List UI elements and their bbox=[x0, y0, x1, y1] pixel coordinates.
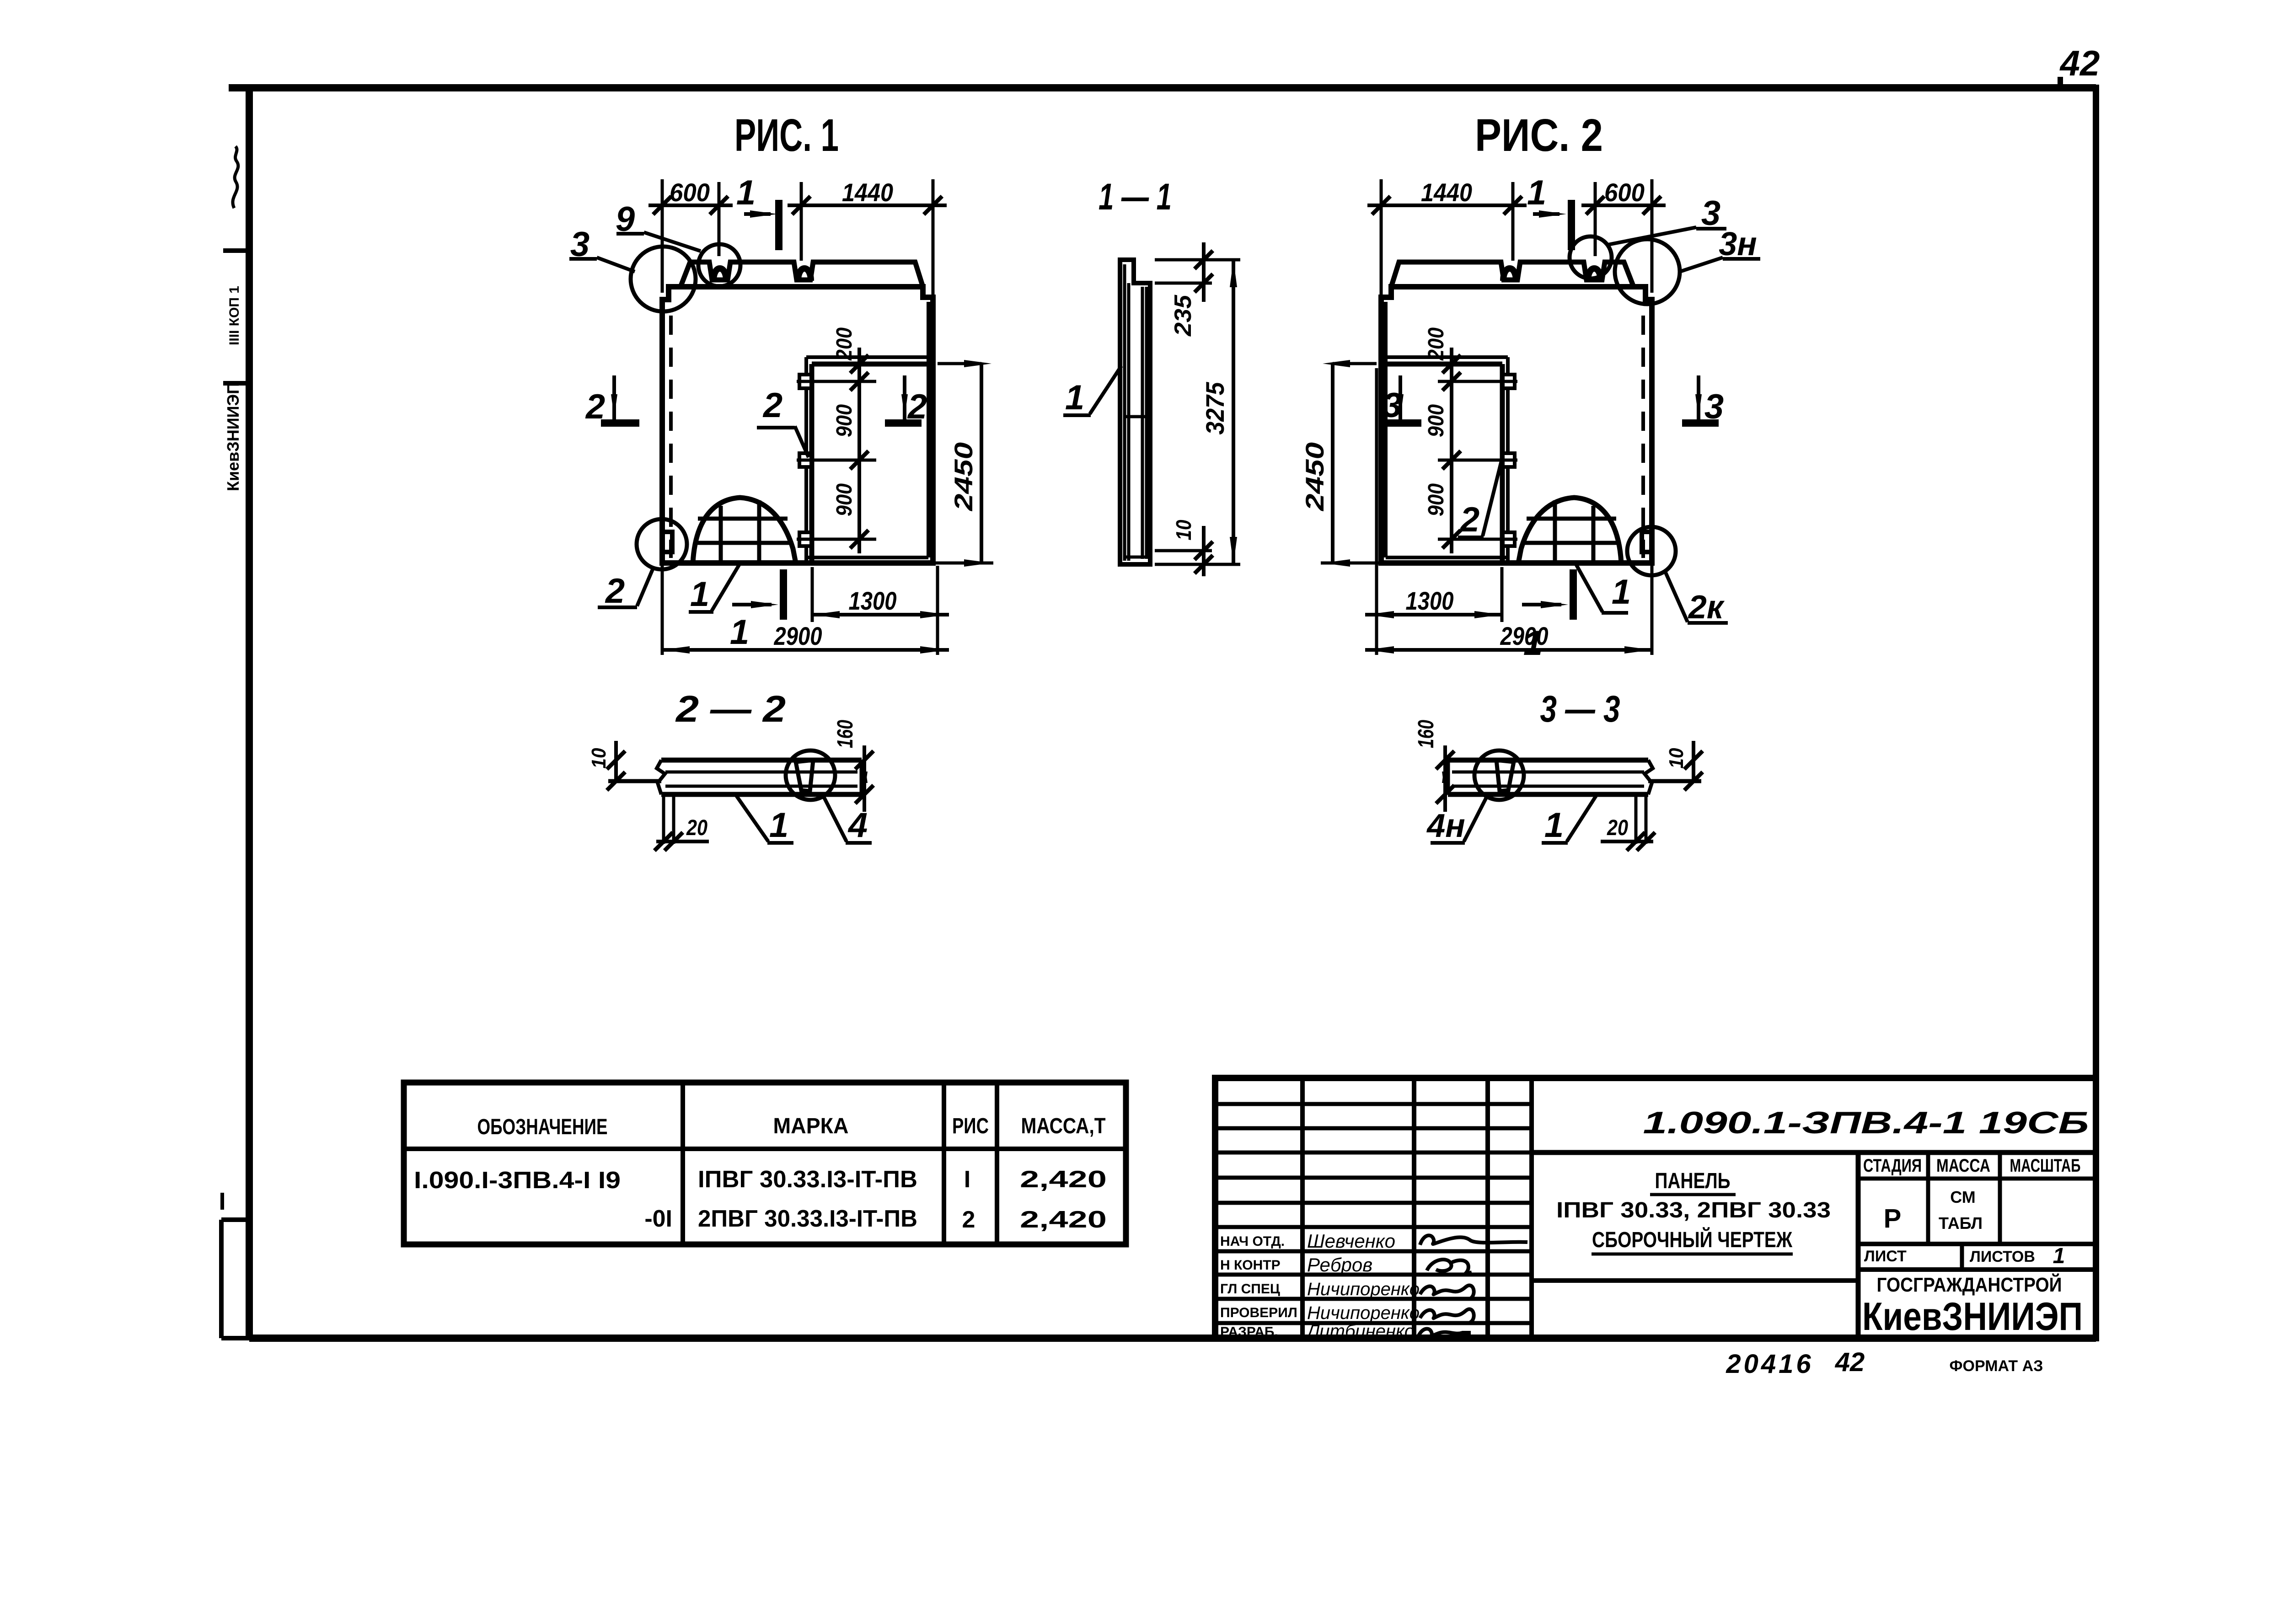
RIS.2 section mark 3 right bbox=[1682, 375, 1724, 426]
svg-text:ЛИСТОВ: ЛИСТОВ bbox=[1970, 1248, 2035, 1265]
RIS.2 dim line 1440 bbox=[1367, 204, 1527, 207]
svg-text:2900: 2900 bbox=[1500, 622, 1549, 650]
svg-text:20: 20 bbox=[1607, 816, 1628, 840]
RIS.1 item label 1 leader bbox=[689, 563, 740, 614]
section 2-2 item label 1 bbox=[735, 794, 793, 845]
svg-text:160: 160 bbox=[1414, 720, 1438, 748]
svg-text:2: 2 bbox=[585, 387, 605, 426]
RIS.1 section mark 2 right bbox=[885, 375, 927, 426]
svg-text:10: 10 bbox=[588, 748, 610, 768]
svg-text:2: 2 bbox=[962, 1206, 975, 1233]
section 2-2 dim 160 bbox=[833, 720, 874, 812]
section 1-1 dim 235 bbox=[1155, 242, 1240, 337]
RIS.1 panel outline bbox=[662, 287, 933, 563]
signature Litvinenko bbox=[1419, 1329, 1471, 1335]
RIS.1 item label 2 plate leader bbox=[757, 386, 809, 457]
section 1-1 item label 1 bbox=[1063, 366, 1121, 417]
svg-text:РИС. 2: РИС. 2 bbox=[1475, 110, 1603, 161]
svg-text:10: 10 bbox=[1172, 520, 1195, 540]
svg-text:3: 3 bbox=[1704, 387, 1724, 426]
RIS.2 bottom dim 1300 bbox=[1365, 368, 1502, 655]
RIS.1 section mark 2 left bbox=[585, 375, 639, 426]
RIS.2 detail circle 3n bbox=[1615, 239, 1680, 304]
svg-text:Р: Р bbox=[1884, 1204, 1902, 1233]
svg-text:42: 42 bbox=[2059, 43, 2100, 83]
hidden dashed edge bbox=[1641, 316, 1645, 558]
RIS.1 bottom dim 1300 bbox=[812, 566, 949, 655]
section 2-2 joint wedge bbox=[796, 760, 813, 791]
svg-text:СТАДИЯ: СТАДИЯ bbox=[1863, 1156, 1922, 1176]
RIS.1 bottom dim 2900 bbox=[662, 563, 949, 655]
svg-text:20: 20 bbox=[686, 816, 707, 840]
sheet frame bbox=[229, 85, 2096, 1338]
svg-text:2: 2 bbox=[605, 572, 625, 611]
signature Shevchenko bbox=[1420, 1235, 1527, 1245]
RIS.1 label 9 bbox=[616, 200, 701, 251]
svg-text:2: 2 bbox=[1459, 500, 1479, 539]
svg-text:20416: 20416 bbox=[1726, 1349, 1813, 1379]
RIS.1 dim line 600 bbox=[648, 204, 733, 207]
svg-text:2к: 2к bbox=[1688, 589, 1725, 626]
RIS.1 detail circle 9 bbox=[698, 244, 740, 286]
section 1-1 dim 3275 bbox=[1155, 260, 1240, 564]
svg-text:600: 600 bbox=[670, 178, 710, 207]
section 3-3 dim 20 bbox=[1601, 796, 1655, 851]
RIS.1 dim 600 and 1440 extension lines bbox=[648, 178, 947, 295]
svg-text:3 — 3: 3 — 3 bbox=[1540, 688, 1620, 730]
hidden dashed edge bbox=[669, 316, 673, 558]
parts table bbox=[404, 1083, 1126, 1244]
svg-text:ПРОВЕРИЛ: ПРОВЕРИЛ bbox=[1220, 1305, 1297, 1320]
RIS.1 detail circle 2 bottom bbox=[637, 519, 687, 569]
signature Nichiporenko 2 bbox=[1420, 1309, 1474, 1323]
RIS.1 chain dims 200 900 900 bbox=[797, 327, 876, 553]
RIS.1 label 3 bbox=[569, 225, 635, 272]
svg-text:2,420: 2,420 bbox=[1020, 1206, 1107, 1233]
svg-text:2 — 2: 2 — 2 bbox=[675, 688, 786, 730]
svg-text:НАЧ ОТД.: НАЧ ОТД. bbox=[1220, 1234, 1285, 1249]
RIS.2 bottom dim 2900 bbox=[1365, 563, 1652, 655]
lifting loop 1 bbox=[713, 268, 726, 281]
svg-text:1: 1 bbox=[1065, 378, 1084, 417]
RIS.2 section mark 1-1 bottom bbox=[1522, 569, 1573, 663]
name area bottom line bbox=[1532, 1278, 1858, 1283]
RIS.1 dim line 1440 bbox=[788, 204, 947, 207]
RIS.2 item label 2 plate leader bbox=[1458, 461, 1501, 539]
RIS.2 section mark 3 left bbox=[1383, 375, 1421, 425]
top ridge profile bbox=[1391, 262, 1634, 287]
section 1-1 dim 10 bbox=[1155, 520, 1213, 576]
section 3-3 joint wedge bbox=[1496, 760, 1514, 791]
svg-text:900: 900 bbox=[832, 483, 857, 516]
svg-text:1300: 1300 bbox=[849, 586, 897, 615]
svg-text:1: 1 bbox=[690, 575, 709, 614]
section 3-3 dim 10 bbox=[1648, 741, 1703, 790]
top ridge profile bbox=[681, 262, 923, 287]
svg-text:1.090.1-ЗПВ.4-1 19СБ: 1.090.1-ЗПВ.4-1 19СБ bbox=[1643, 1105, 2089, 1140]
svg-text:СБОРОЧНЫЙ ЧЕРТЕЖ: СБОРОЧНЫЙ ЧЕРТЕЖ bbox=[1592, 1227, 1793, 1252]
svg-text:900: 900 bbox=[1424, 404, 1448, 437]
svg-text:160: 160 bbox=[833, 720, 857, 748]
svg-text:ОБОЗНАЧЕНИЕ: ОБОЗНАЧЕНИЕ bbox=[477, 1115, 608, 1139]
section 2-2 slab bbox=[657, 760, 862, 794]
svg-text:МАРКА: МАРКА bbox=[773, 1114, 849, 1138]
svg-text:1: 1 bbox=[1544, 806, 1564, 845]
window opening with grid bbox=[1518, 498, 1621, 563]
svg-text:1440: 1440 bbox=[842, 178, 893, 207]
svg-text:200: 200 bbox=[832, 327, 857, 361]
window opening with grid bbox=[693, 498, 796, 563]
svg-text:1: 1 bbox=[2053, 1244, 2065, 1268]
svg-text:Ничипоренко: Ничипоренко bbox=[1307, 1303, 1420, 1323]
svg-text:2ПВГ 30.33.I3-IT-ПВ: 2ПВГ 30.33.I3-IT-ПВ bbox=[698, 1206, 917, 1232]
svg-text:2: 2 bbox=[907, 387, 927, 426]
RIS.2 label 2k bbox=[1666, 573, 1728, 626]
svg-text:СМ: СМ bbox=[1950, 1188, 1976, 1206]
section 3-3 detail circle 4n bbox=[1474, 750, 1524, 800]
svg-text:РИС: РИС bbox=[952, 1114, 989, 1138]
list row bbox=[1858, 1244, 2096, 1270]
svg-text:Литбиненко: Литбиненко bbox=[1306, 1321, 1415, 1341]
lifting loop 2 bbox=[798, 268, 811, 281]
lifting loop 1 bbox=[1588, 268, 1601, 281]
edge step detail in bottom circle bbox=[1642, 532, 1652, 552]
svg-text:ЛИСТ: ЛИСТ bbox=[1864, 1248, 1907, 1265]
svg-text:1: 1 bbox=[769, 806, 788, 845]
left margin handwritten note bbox=[233, 146, 238, 208]
embed plates bbox=[799, 375, 811, 388]
svg-text:3: 3 bbox=[1383, 386, 1402, 425]
svg-text:МАСШТАБ: МАСШТАБ bbox=[2010, 1156, 2081, 1176]
svg-text:РИС. 1: РИС. 1 bbox=[734, 110, 839, 161]
RIS.2 section mark 1-1 top bbox=[1527, 173, 1571, 250]
RIS.2 dim line 600 bbox=[1581, 204, 1666, 207]
svg-text:200: 200 bbox=[1424, 327, 1448, 361]
svg-text:ФОРМАТ АЗ: ФОРМАТ АЗ bbox=[1950, 1357, 2043, 1375]
svg-text:2,420: 2,420 bbox=[1020, 1166, 1107, 1193]
svg-text:235: 235 bbox=[1170, 295, 1196, 337]
stage table bbox=[1858, 1152, 2096, 1244]
svg-text:Шевченко: Шевченко bbox=[1307, 1230, 1395, 1252]
RIS.2 chain dims 200 900 900 bbox=[1424, 327, 1517, 553]
section 2-2 dim 10 bbox=[588, 741, 661, 790]
svg-text:2450: 2450 bbox=[949, 442, 978, 511]
svg-text:1: 1 bbox=[736, 173, 756, 212]
svg-text:900: 900 bbox=[832, 404, 857, 437]
edge step detail in bottom circle bbox=[662, 532, 672, 552]
RIS.1 section mark 1-1 top bbox=[736, 173, 779, 250]
svg-text:1440: 1440 bbox=[1421, 178, 1472, 207]
svg-text:Ребров: Ребров bbox=[1307, 1254, 1372, 1276]
svg-text:IПВГ 30.33.I3-IT-ПВ: IПВГ 30.33.I3-IT-ПВ bbox=[698, 1166, 917, 1193]
svg-text:900: 900 bbox=[1424, 483, 1448, 516]
svg-text:1: 1 bbox=[1612, 573, 1631, 611]
lifting loop 2 bbox=[1503, 268, 1516, 281]
svg-text:2450: 2450 bbox=[1300, 442, 1329, 511]
section 2-2 detail circle 4 bbox=[786, 750, 835, 800]
svg-text:42: 42 bbox=[1835, 1347, 1865, 1377]
title block frame bbox=[1215, 1078, 2096, 1338]
RIS.2 panel outline bbox=[1381, 287, 1652, 563]
RIS.1 detail circle 3 bbox=[631, 247, 696, 311]
svg-text:I: I bbox=[964, 1166, 970, 1193]
signature Rebrov bbox=[1427, 1260, 1472, 1275]
RIS.1 section mark 1-1 bottom bbox=[730, 569, 783, 652]
svg-text:-0I: -0I bbox=[644, 1206, 672, 1232]
section 2-2 dim 20 bbox=[654, 796, 709, 851]
section 2-2 item label 4 bbox=[823, 796, 872, 845]
svg-text:Ничипоренко: Ничипоренко bbox=[1307, 1279, 1420, 1299]
svg-text:ГОСГРАЖДАНСТРОЙ: ГОСГРАЖДАНСТРОЙ bbox=[1877, 1273, 2062, 1296]
RIS.2 left dim 2450 bbox=[1300, 360, 1378, 567]
svg-text:ПАНЕЛЬ: ПАНЕЛЬ bbox=[1655, 1169, 1731, 1193]
svg-text:10: 10 bbox=[1665, 748, 1688, 768]
svg-text:2900: 2900 bbox=[774, 622, 822, 650]
signature Nichiporenko 1 bbox=[1420, 1286, 1474, 1299]
svg-text:КиевЗНИИЭП: КиевЗНИИЭП bbox=[224, 382, 242, 491]
RIS.2 dim extension lines bbox=[1367, 178, 1666, 295]
RIS.2 detail circle 2k bbox=[1627, 527, 1676, 575]
section 3-3 slab bbox=[1448, 760, 1653, 794]
section 3-3 dim 160 bbox=[1414, 720, 1454, 812]
svg-text:600: 600 bbox=[1604, 178, 1645, 207]
svg-text:ІІІІ КОП 1: ІІІІ КОП 1 bbox=[227, 286, 242, 345]
svg-text:1: 1 bbox=[730, 613, 749, 652]
embed plates bbox=[1503, 375, 1515, 388]
svg-text:4н: 4н bbox=[1426, 808, 1465, 844]
svg-text:ГЛ СПЕЦ: ГЛ СПЕЦ bbox=[1220, 1281, 1280, 1297]
svg-text:4: 4 bbox=[847, 806, 868, 845]
RIS.2 label 3n bbox=[1680, 226, 1760, 272]
svg-text:ТАБЛ: ТАБЛ bbox=[1939, 1214, 1983, 1233]
svg-text:I.090.I-3ПВ.4-I I9: I.090.I-3ПВ.4-I I9 bbox=[414, 1167, 621, 1194]
RIS.1 right dim 2450 bbox=[936, 360, 993, 567]
section 3-3 item label 1 bbox=[1542, 794, 1597, 845]
svg-text:IПВГ 30.33, 2ПВГ 30.33: IПВГ 30.33, 2ПВГ 30.33 bbox=[1556, 1198, 1831, 1222]
svg-text:1300: 1300 bbox=[1406, 586, 1454, 615]
svg-text:3275: 3275 bbox=[1200, 382, 1229, 435]
section 3-3 item label 4n bbox=[1426, 796, 1487, 844]
RIS.2 detail circle 9 bbox=[1570, 236, 1612, 279]
svg-text:МАССА: МАССА bbox=[1936, 1156, 1990, 1176]
svg-text:КиевЗНИИЭП: КиевЗНИИЭП bbox=[1862, 1295, 2083, 1339]
left margin stamp box bbox=[221, 251, 249, 1338]
svg-text:2: 2 bbox=[762, 386, 782, 425]
RIS.1 label 2 bottom bbox=[598, 566, 654, 611]
section 1-1 panel profile bbox=[1120, 260, 1150, 564]
svg-text:Н КОНТР: Н КОНТР bbox=[1220, 1258, 1281, 1273]
svg-text:1 — 1: 1 — 1 bbox=[1099, 176, 1172, 218]
svg-text:МАССА,Т: МАССА,Т bbox=[1021, 1114, 1106, 1138]
RIS.2 item label 1 leader bbox=[1576, 563, 1631, 613]
svg-text:РАЗРАБ.: РАЗРАБ. bbox=[1220, 1324, 1278, 1340]
svg-text:1: 1 bbox=[1527, 173, 1546, 212]
RIS.2 label 3 top bbox=[1608, 194, 1726, 245]
